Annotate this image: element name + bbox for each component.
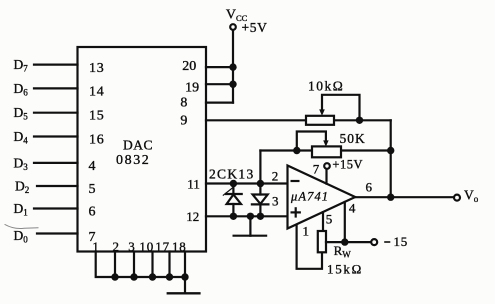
diode D1 2CK13 (anode down cathode up) [223,184,241,217]
op-amp U2 uA741 triangle [288,166,356,229]
svg-text:8: 8 [180,96,187,111]
svg-text:50K: 50K [340,131,366,146]
svg-text:RW: RW [334,243,352,259]
svg-text:Vo: Vo [464,188,479,205]
svg-text:7: 7 [313,162,320,177]
svg-text:+5V: +5V [242,20,268,35]
svg-text:1: 1 [92,239,99,254]
svg-text:13: 13 [89,61,105,76]
wire pin 9 to feedback node [206,119,391,121]
svg-text:2CK13: 2CK13 [209,167,255,182]
svg-text:18: 18 [172,239,187,254]
wire D1 to pin 6 [34,207,78,209]
svg-text:16: 16 [89,133,105,148]
wire 50K net [260,149,390,151]
wire pin 12 to op-amp noninverting input [206,215,288,217]
-15 terminal circle [371,239,377,245]
plus sign noninverting input [292,208,300,216]
wire pin 8 to Vcc rail [206,101,233,103]
R1 wiper arrowhead [319,109,325,115]
svg-text:19: 19 [185,80,199,95]
junction R1 wiper / pin9 wire [356,117,363,124]
+15V terminal circle [324,163,330,169]
wire D0 to pin 7 [37,232,78,234]
junction bus pin10 [149,273,156,280]
svg-text:5: 5 [89,182,96,197]
junction bus pin2 [111,273,118,280]
pin 1 lead and wire to Rw bottom [297,226,322,269]
svg-text:D3: D3 [14,155,29,172]
wire D2 to pin 5 [37,185,78,187]
minus sign inverting input [292,180,299,182]
Vcc terminal circle [230,24,236,30]
svg-text:10: 10 [139,239,154,254]
junction diode D1 top [230,180,237,187]
junction diode D2 bottom [257,213,264,220]
svg-text:μA741: μA741 [290,190,329,204]
junction bus pin18 [181,273,188,280]
R2 wiper arrowhead [323,140,328,146]
DAC U1 DAC0832 body [78,47,207,252]
svg-text:1: 1 [303,224,310,239]
svg-text:5: 5 [326,211,333,226]
svg-text:6: 6 [366,179,373,194]
junction bus pin3 [130,273,137,280]
svg-text:D6: D6 [14,81,29,98]
wire pin 19 to Vcc rail [206,83,233,85]
svg-text:2: 2 [272,168,279,183]
svg-text:11: 11 [187,177,200,192]
R2 wiper arm loop [297,132,326,151]
svg-text:D4: D4 [14,129,29,146]
Rw wiper wire to -15 [326,241,371,243]
junction diode D1 bottom [230,213,237,220]
wire D4 to pin 16 [34,135,78,137]
svg-text:D1: D1 [14,201,28,218]
junction bus pin17 [166,273,173,280]
junction pin4 / Rw wiper [341,238,348,245]
wire pin 11 to op-amp inverting input [206,182,288,184]
minus dash of -15 label [385,241,390,243]
svg-text:6: 6 [89,205,96,220]
bottom ground bus stubs pins 1,2,3,10,17,18 [96,252,185,294]
svg-text:4: 4 [349,200,356,215]
wire pin 20 to Vcc rail [206,66,233,68]
Vcc rail vertical wire [232,30,234,103]
junction pin20/Vcc [229,63,236,70]
output wire pin 6 to Vo [355,196,453,198]
potentiometer Rw 15k body [318,231,326,252]
svg-text:15: 15 [89,109,105,124]
wire D7 to pin 13 [34,63,78,65]
svg-text:2: 2 [113,239,120,254]
svg-text:14: 14 [89,84,105,99]
svg-text:D2: D2 [15,178,29,195]
svg-text:+15V: +15V [332,158,363,172]
svg-text:0832: 0832 [116,153,150,168]
junction pin19/Vcc [229,81,236,88]
svg-text:D7: D7 [14,57,29,74]
svg-text:15: 15 [394,234,409,249]
wire D5 to pin 15 [34,112,78,114]
junction ground stub [247,213,254,220]
svg-text:3: 3 [272,193,279,208]
pin 4 lead [344,202,346,242]
svg-text:9: 9 [180,114,187,129]
svg-text:12: 12 [186,209,199,224]
svg-text:20: 20 [182,59,196,74]
svg-text:10kΩ: 10kΩ [308,78,344,93]
R1 wiper arm loop [322,95,360,121]
svg-text:15kΩ: 15kΩ [327,262,363,277]
wire D6 to pin 14 [34,87,78,89]
ground symbol at diode net [234,216,267,235]
feedback vertical wire [390,120,392,197]
junction R2 wiper / 50K wire [293,147,300,154]
junction feedback / output [387,194,394,201]
Vo terminal circle [454,195,460,201]
wire 50K net down to inverting input [259,151,261,184]
svg-text:4: 4 [89,159,96,174]
svg-text:D0: D0 [14,228,29,245]
wire D3 to pin 4 [34,162,78,164]
junction 50K wire / feedback vertical [387,147,394,154]
diode D2 2CK13 (anode up cathode down) [252,184,269,217]
junction 50K drop / pin11 wire [257,180,264,187]
potentiometer R2 50K body [312,146,341,157]
svg-text:DAC: DAC [123,137,153,152]
svg-text:3: 3 [128,239,135,254]
squiggle mark above D0 [5,225,38,229]
svg-text:17: 17 [155,239,170,254]
pin 5 lead [322,212,324,231]
ground symbol under DAC [168,292,200,294]
svg-text:D5: D5 [14,105,29,122]
potentiometer R1 10k body [306,116,334,125]
pin 7 lead to +15V [325,169,327,184]
